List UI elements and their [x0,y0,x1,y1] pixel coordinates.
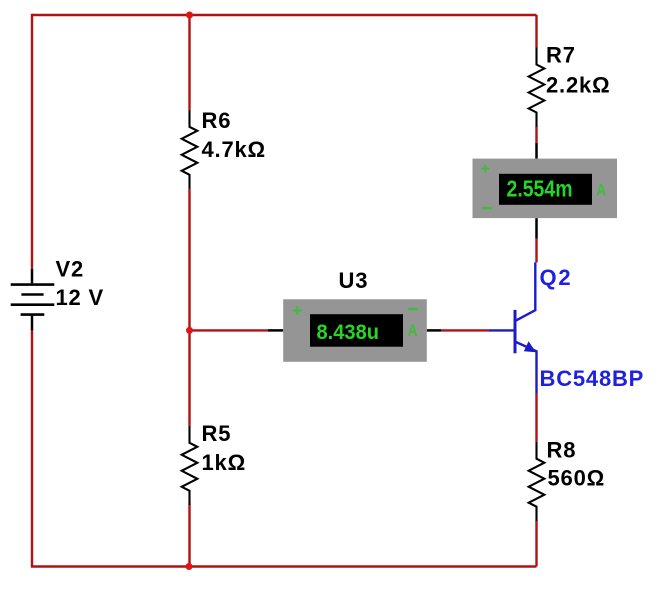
Q2 emitter arrow [524,341,536,352]
transistor Q2 [489,262,537,393]
ammeter U4 body [473,159,618,219]
ammeter U3 display [310,314,403,347]
ammeter U4 pin top [535,143,538,159]
wire top rail [32,14,537,16]
svg-text:2.2kΩ: 2.2kΩ [546,73,610,98]
ammeter U4 minus mark [482,207,492,210]
ammeter U3 body [283,299,427,362]
wire right rail top [535,15,537,48]
svg-text:R5: R5 [202,421,232,446]
ammeter U4 plus mark [481,165,489,173]
wire R7 to ammeter U4 [535,126,537,143]
svg-text:R6: R6 [202,108,232,133]
svg-text:560Ω: 560Ω [548,466,606,491]
ammeter U4 display [499,174,592,205]
wire left rail upper [31,14,33,269]
Q2 base bar [514,310,517,353]
battery V2 [11,269,55,330]
svg-text:R8: R8 [547,438,577,463]
Q2 emitter [516,342,537,393]
resistor R8 [529,442,545,521]
wire middle node to ammeter U3 [190,329,269,331]
wire ammeter U3 to Q2 base [441,329,489,331]
svg-text:2.554m: 2.554m [507,176,573,202]
ammeter U3 pin right [427,329,441,332]
wire middle rail top [188,15,190,110]
ammeter U4 pin bottom [535,218,538,239]
node junction dot bottom [186,563,193,570]
svg-text:V2: V2 [56,257,85,282]
svg-text:1kΩ: 1kΩ [202,450,247,475]
wire middle rail mid [188,189,190,426]
wire Q2 emitter to R8 [535,393,537,442]
Q2 base lead [489,329,514,331]
svg-text:4.7kΩ: 4.7kΩ [202,137,266,162]
svg-text:BC548BP: BC548BP [540,366,645,391]
node junction dot top [186,12,193,19]
svg-text:8.438u: 8.438u [317,321,380,344]
svg-text:R7: R7 [546,43,576,68]
wire middle rail bottom [188,503,190,567]
svg-text:A: A [408,322,418,340]
svg-text:A: A [596,181,606,199]
node junction dot middle [186,327,193,334]
svg-text:12 V: 12 V [56,285,104,310]
svg-text:U3: U3 [339,268,369,293]
ammeter U3 pin left [268,329,283,332]
resistor R6 [182,110,198,189]
resistor R5 [182,426,198,505]
wire bottom rail [31,565,537,567]
ammeter U3 plus mark [293,306,302,315]
resistor R7 [529,48,545,127]
ammeter U3 minus mark [408,308,418,311]
wire left rail lower [31,330,33,567]
Q2 collector [516,262,535,320]
svg-text:Q2: Q2 [540,265,573,290]
wire R8 to bottom rail [535,520,537,567]
wire ammeter U4 to Q2 collector [535,239,537,263]
